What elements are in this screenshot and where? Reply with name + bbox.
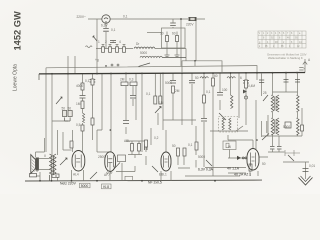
svg-text:1M: 1M: [76, 102, 81, 106]
svg-text:50: 50: [195, 76, 199, 80]
svg-text:0,5: 0,5: [76, 123, 81, 127]
svg-text:1M: 1M: [159, 101, 164, 105]
svg-text:1: 1: [98, 40, 100, 44]
svg-text:ABL: ABL: [124, 139, 130, 143]
svg-text:4V 1,1A: 4V 1,1A: [227, 167, 240, 171]
svg-text:6: 6: [240, 76, 242, 80]
svg-text:4000: 4000: [76, 84, 83, 88]
svg-text:25: 25: [263, 91, 267, 95]
svg-text:50: 50: [262, 162, 266, 166]
svg-text:EBL1: EBL1: [159, 173, 167, 177]
svg-text:AL4: AL4: [73, 173, 79, 177]
svg-text:30: 30: [160, 32, 164, 36]
svg-text:3: 3: [112, 40, 114, 44]
svg-text:Netz 220V: Netz 220V: [60, 182, 77, 186]
svg-text:Loewe Opta: Loewe Opta: [12, 64, 18, 91]
svg-text:0,1: 0,1: [188, 143, 193, 147]
svg-text:5000: 5000: [140, 51, 147, 55]
svg-text:Wellenschalter in Stellung K: Wellenschalter in Stellung K: [268, 56, 303, 60]
svg-text:2500: 2500: [98, 155, 105, 159]
svg-text:0,1: 0,1: [111, 28, 116, 32]
svg-text:6,3V 0,3A: 6,3V 0,3A: [198, 167, 214, 171]
svg-text:2M: 2M: [120, 78, 125, 82]
svg-text:AZ 1: AZ 1: [244, 173, 251, 177]
svg-text:0,1: 0,1: [206, 90, 211, 94]
svg-text:4V 2A: 4V 2A: [234, 173, 244, 177]
svg-text:4: 4: [119, 40, 121, 44]
svg-text:0,4M: 0,4M: [248, 84, 255, 88]
svg-text:6,3V: 6,3V: [101, 24, 108, 28]
svg-text:NF 2x0,5: NF 2x0,5: [148, 181, 162, 185]
svg-text:4: 4: [36, 169, 38, 173]
svg-text:50: 50: [68, 107, 72, 111]
svg-text:5000: 5000: [165, 81, 172, 85]
svg-text:5000: 5000: [81, 184, 89, 188]
svg-text:0,1: 0,1: [146, 92, 151, 96]
svg-text:0,3: 0,3: [129, 78, 134, 82]
svg-text:5000: 5000: [198, 155, 205, 159]
svg-text:W: W: [228, 145, 231, 149]
svg-text:0,01: 0,01: [309, 164, 315, 168]
svg-text:0,2: 0,2: [154, 136, 159, 140]
svg-text:50: 50: [62, 107, 66, 111]
svg-text:II: II: [44, 154, 46, 158]
svg-text:100: 100: [222, 88, 228, 92]
svg-text:220V: 220V: [186, 23, 194, 27]
svg-text:5000: 5000: [283, 125, 290, 129]
svg-text:60: 60: [172, 32, 176, 36]
svg-text:+g: +g: [95, 58, 99, 62]
svg-text:60: 60: [214, 74, 218, 78]
svg-text:2M: 2M: [175, 89, 180, 93]
svg-text:1452 GW: 1452 GW: [13, 11, 23, 50]
svg-text:220V~: 220V~: [77, 15, 86, 19]
svg-text:2: 2: [105, 40, 107, 44]
svg-text:50: 50: [172, 144, 176, 148]
svg-text:0,1: 0,1: [85, 79, 90, 83]
svg-text:0,1: 0,1: [123, 15, 128, 19]
